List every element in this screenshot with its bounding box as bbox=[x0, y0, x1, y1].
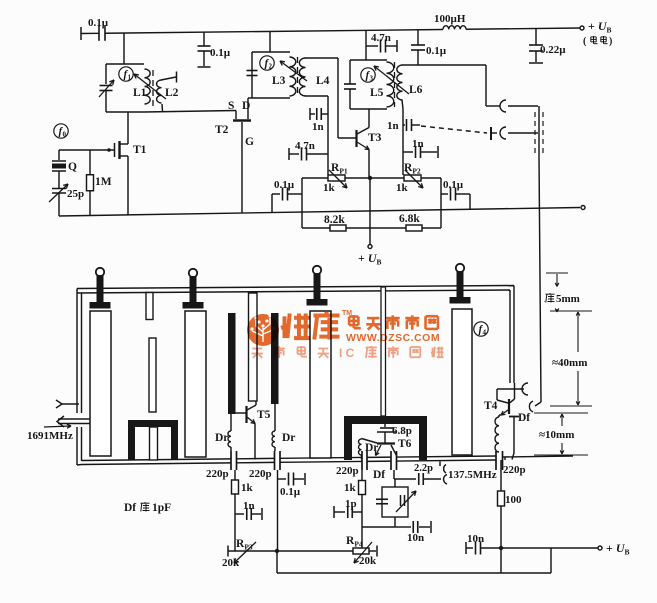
svg-text:T3: T3 bbox=[368, 132, 382, 144]
svg-text:1n: 1n bbox=[312, 121, 324, 133]
svg-text:1n: 1n bbox=[412, 138, 424, 150]
svg-text:2: 2 bbox=[269, 63, 273, 71]
svg-text:4.7n: 4.7n bbox=[371, 32, 391, 44]
svg-text:G: G bbox=[245, 136, 254, 148]
svg-text:Dr: Dr bbox=[215, 432, 228, 444]
svg-text:2.2p: 2.2p bbox=[414, 463, 433, 474]
svg-text:1n: 1n bbox=[387, 120, 399, 132]
svg-text:1: 1 bbox=[128, 74, 132, 82]
svg-text:L3: L3 bbox=[272, 75, 286, 87]
svg-text:Df: Df bbox=[124, 502, 136, 514]
svg-text:100µH: 100µH bbox=[434, 13, 466, 25]
svg-text:20k: 20k bbox=[359, 555, 377, 567]
svg-text:I C: I C bbox=[339, 346, 355, 360]
svg-text:0.22µ: 0.22µ bbox=[540, 44, 566, 56]
svg-text:1k: 1k bbox=[344, 482, 357, 494]
svg-text:1k: 1k bbox=[323, 182, 336, 194]
svg-text:Df: Df bbox=[373, 469, 385, 481]
svg-text:T2: T2 bbox=[215, 124, 229, 136]
svg-text:T1: T1 bbox=[133, 144, 147, 156]
svg-text:1k: 1k bbox=[241, 482, 254, 494]
svg-text:6.8p: 6.8p bbox=[392, 425, 412, 437]
svg-text:≈40mm: ≈40mm bbox=[552, 357, 587, 369]
svg-text:10n: 10n bbox=[407, 532, 424, 544]
svg-text:S: S bbox=[228, 100, 234, 112]
svg-text:25p: 25p bbox=[67, 188, 84, 200]
svg-text:4.7n: 4.7n bbox=[295, 140, 315, 152]
svg-text:Q: Q bbox=[68, 161, 77, 173]
svg-text:137.5MHz: 137.5MHz bbox=[448, 469, 497, 481]
svg-text:≈10mm: ≈10mm bbox=[539, 429, 574, 441]
svg-text:220p: 220p bbox=[206, 468, 229, 480]
svg-text:1k: 1k bbox=[396, 182, 409, 194]
svg-text:L4: L4 bbox=[316, 75, 330, 87]
svg-text:): ) bbox=[609, 36, 612, 47]
svg-text:10n: 10n bbox=[467, 533, 484, 545]
svg-text:L1: L1 bbox=[133, 87, 147, 99]
svg-text:Df: Df bbox=[518, 412, 530, 424]
svg-text:Dr: Dr bbox=[365, 442, 378, 454]
svg-text:D: D bbox=[242, 100, 250, 112]
svg-text:4: 4 bbox=[483, 329, 487, 337]
svg-text:3: 3 bbox=[370, 75, 374, 83]
svg-text:1691MHz: 1691MHz bbox=[27, 430, 73, 442]
svg-text:0.1µ: 0.1µ bbox=[274, 179, 295, 191]
svg-text:220p: 220p bbox=[336, 465, 359, 477]
svg-text:L6: L6 bbox=[409, 84, 423, 96]
svg-text:100: 100 bbox=[505, 494, 522, 506]
svg-text:L2: L2 bbox=[165, 87, 179, 99]
svg-text:8.2k: 8.2k bbox=[324, 214, 345, 226]
svg-text:0.1µ: 0.1µ bbox=[88, 17, 109, 29]
svg-text:1p: 1p bbox=[345, 498, 357, 510]
svg-text:0.1µ: 0.1µ bbox=[443, 179, 464, 191]
svg-text:220p: 220p bbox=[503, 464, 526, 476]
svg-text:0.1µ: 0.1µ bbox=[426, 45, 447, 57]
svg-text:220p: 220p bbox=[249, 468, 272, 480]
svg-text:0: 0 bbox=[63, 131, 67, 139]
svg-text:T6: T6 bbox=[398, 438, 412, 450]
svg-text:6.8k: 6.8k bbox=[399, 213, 420, 225]
svg-text:0.1µ: 0.1µ bbox=[210, 47, 231, 59]
svg-text:T5: T5 bbox=[257, 409, 271, 421]
svg-text:1M: 1M bbox=[95, 176, 112, 188]
svg-text:0.1µ: 0.1µ bbox=[280, 486, 301, 498]
svg-text:WWW.DZSC.COM: WWW.DZSC.COM bbox=[346, 332, 440, 344]
svg-text:T4: T4 bbox=[484, 400, 498, 412]
svg-text:1n: 1n bbox=[243, 500, 255, 512]
svg-text:20k: 20k bbox=[222, 557, 240, 569]
svg-text:5mm: 5mm bbox=[556, 293, 580, 305]
svg-text:L5: L5 bbox=[370, 87, 384, 99]
svg-text:1pF: 1pF bbox=[152, 502, 171, 514]
svg-text:Dr: Dr bbox=[282, 432, 295, 444]
